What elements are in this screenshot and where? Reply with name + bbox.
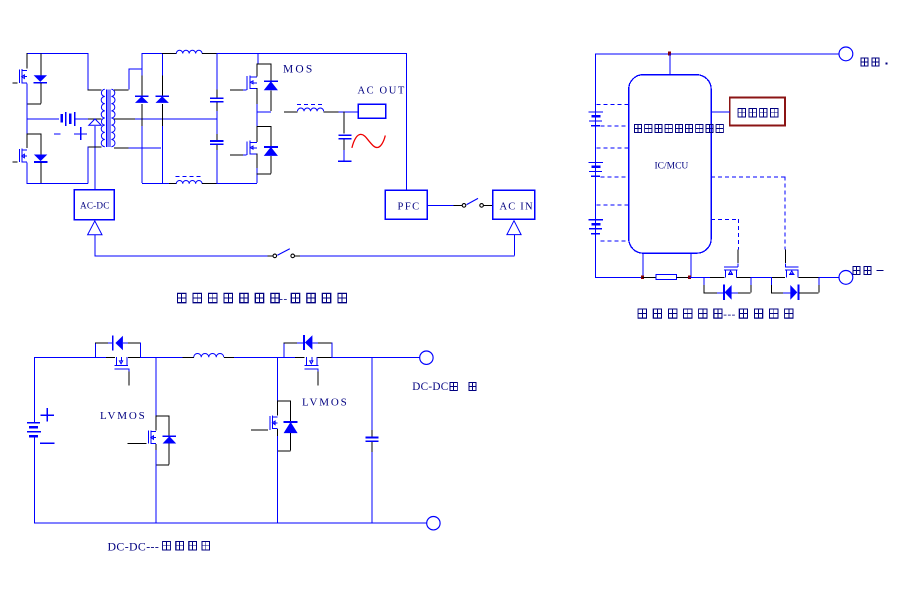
wire AC IN arrow drop: [513, 235, 515, 256]
svg-text:DC-DC---: DC-DC---: [108, 540, 160, 554]
wire Q6 to terminal: [798, 276, 818, 278]
svg-text:LVMOS: LVMOS: [100, 410, 147, 422]
battery B2 (LV battery): [33, 357, 35, 422]
wire IC sense legs: [642, 253, 644, 277]
diode D6 (Q4 freewheel): [256, 126, 271, 128]
wire BMS left string: [595, 53, 597, 277]
node K1 arrow from AC-DC into centre tap: [89, 119, 101, 125]
diode D4 (rectifier right): [162, 53, 164, 76]
IC U1 battery monitor MCU outline: [629, 75, 712, 254]
box communication interface: [730, 97, 785, 125]
wire rail to IC top: [669, 53, 671, 74]
wire PFC to switch: [427, 204, 454, 206]
waveform AC sine: [352, 134, 385, 148]
wire DC-DC bottom rail: [34, 522, 427, 524]
wire secondary bottom stub: [114, 147, 129, 149]
transistor Q2 (primary bridge lower MOSFET): [27, 133, 41, 135]
battery B1 (main DC source): [60, 114, 63, 123]
diode D2 (Q2 parallel diode): [40, 134, 42, 155]
label B1 plus: [74, 133, 87, 135]
wire battery row left: [26, 103, 28, 133]
wire L4 to phase node 2: [224, 357, 234, 359]
transistor Q1 (primary bridge upper MOSFET): [26, 53, 28, 69]
wire shunt to Q5: [689, 276, 710, 278]
wire secondary top elbow: [128, 68, 130, 89]
caption battery management unit topology: [638, 309, 646, 318]
label B2 plus: [40, 414, 54, 416]
inductor L3 (AC output choke): [298, 108, 324, 111]
capacitor C3 (AC output filter): [343, 111, 345, 133]
diode D12 (Q10 bypass): [283, 343, 285, 358]
svg-text:IC/MCU: IC/MCU: [655, 162, 689, 172]
terminal battery plus: [839, 47, 853, 61]
battery cell BT2: [589, 162, 603, 164]
capacitor C2 (lower bus cap): [216, 134, 218, 140]
wire top rail down to PFC: [405, 53, 407, 190]
diode D1 (Q1 parallel diode): [40, 54, 42, 76]
box AC OUT: [358, 104, 386, 118]
wire bypass return line: [95, 255, 268, 257]
wire AC-DC arrow drop: [94, 235, 96, 255]
wire DC-DC top rail: [34, 357, 95, 359]
svg-text:AC OUT: AC OUT: [358, 86, 406, 97]
resistor R1 current shunt: [642, 276, 656, 278]
line L2 core dash: [175, 175, 202, 177]
box PFC: [385, 190, 427, 219]
inductor L2 (bottom DC filter choke): [176, 180, 202, 183]
svg-text:PFC: PFC: [398, 202, 421, 213]
switch S1 (grid transfer): [454, 204, 462, 206]
transistor Q9 (sync rectifier MOSFET 2): [277, 400, 290, 402]
svg-text:LVMOS: LVMOS: [302, 397, 349, 409]
node arrow under AC IN: [507, 221, 521, 235]
wire rail under D9: [95, 357, 106, 359]
transistor Q3 (inverter MOSFET high side): [257, 53, 259, 64]
node arrow under AC-DC: [88, 221, 102, 235]
inductor L4 (DC-DC choke): [194, 353, 224, 357]
label U1 chinese: battery detect and control unit: [634, 125, 641, 133]
svg-text:MOS: MOS: [283, 64, 315, 76]
inductor L1 (top DC filter choke): [176, 50, 202, 53]
diode D9 (Q7 bypass): [95, 343, 97, 358]
wire BMS positive rail: [595, 53, 839, 55]
transistor Q10 (second high-side MOSFET): [305, 357, 307, 365]
wire Q8 to bottom rail: [155, 465, 157, 523]
svg-text:AC-DC: AC-DC: [80, 201, 110, 211]
svg-text:---: ---: [723, 308, 736, 320]
wire rail to L4: [183, 357, 194, 359]
label battery minus: [853, 266, 860, 274]
wire inverter mid node: [256, 111, 271, 113]
wire gate drive dashed to Q5: [711, 219, 738, 221]
wire inverter AC output: [284, 111, 297, 113]
diode D8 (Q6 bypass): [771, 277, 773, 285]
label B1 minus: [54, 133, 60, 135]
wire secondary bottom rail: [142, 183, 169, 185]
transistor Q6 (discharge protect MOSFET): [784, 249, 786, 263]
transformer T1: [87, 53, 89, 89]
wire primary top rail: [27, 53, 89, 55]
capacitor C4 (output cap): [371, 357, 373, 430]
wire bottom rail continues: [202, 183, 217, 185]
diode D7 (Q5 bypass): [703, 277, 705, 285]
wire rail Q7 to junction: [128, 357, 140, 359]
wire Q1 source node: [27, 103, 41, 105]
wire L3 to AC OUT box: [324, 111, 339, 113]
diode D11 (Q9 body diode): [290, 400, 292, 421]
wire Q9 to bottom rail: [277, 451, 279, 523]
transistor Q8 (sync rectifier MOSFET 1): [156, 415, 170, 417]
box AC-DC: [74, 190, 114, 220]
junction dot IC supply: [668, 51, 671, 55]
wire gate drive dashed to Q6: [711, 176, 785, 178]
line L3 core dash: [297, 103, 324, 105]
label battery plus: [861, 58, 868, 66]
wire BMS bottom rail left: [595, 276, 642, 278]
battery cell BT3: [589, 219, 603, 221]
switch S2 (bypass): [273, 254, 277, 258]
wire IC to comm box: [711, 111, 730, 113]
wire top rail continues: [202, 53, 217, 55]
terminal DC-DC output plus: [420, 351, 433, 364]
wire secondary top rail: [142, 53, 163, 55]
svg-text:AC IN: AC IN: [500, 202, 534, 213]
transistor Q4 (inverter MOSFET low side): [243, 154, 247, 156]
wire Q5 to Q6: [737, 276, 752, 278]
battery cell BT1: [589, 111, 603, 113]
svg-text:DC-DC: DC-DC: [412, 381, 448, 393]
caption main inverter storage unit topology: [177, 293, 186, 303]
diode D3 (rectifier left): [141, 53, 143, 75]
label comm interface chinese: [738, 109, 745, 117]
wire primary bottom rail: [27, 183, 88, 185]
transistor Q7 (buck high-side MOSFET): [115, 357, 117, 365]
wire phase node 2 drop: [277, 357, 279, 400]
box AC IN: [493, 190, 535, 219]
junction dot sense left: [641, 275, 644, 278]
diode D5 (Q3 freewheel): [256, 63, 271, 65]
wire cell sense taps (dashed): [597, 104, 629, 106]
junction dot sense right: [688, 275, 691, 278]
transistor Q5 (charge protect MOSFET): [737, 249, 739, 263]
svg-text:--: --: [279, 293, 287, 305]
wire rail under D12: [284, 357, 295, 359]
wire battery to transformer centre tap: [74, 118, 88, 120]
wire secondary centre tap: [114, 118, 135, 120]
wire rail Q10 to cap branch: [317, 357, 331, 359]
diode D10 (Q8 body diode): [168, 415, 170, 436]
terminal battery minus: [839, 271, 853, 285]
wire phase node 1 drop: [155, 357, 157, 415]
capacitor C1 (upper bus cap): [216, 53, 218, 90]
label B2 minus: [40, 442, 55, 444]
terminal DC-DC output minus: [427, 517, 440, 530]
wire arrow to AC-DC box: [94, 126, 96, 190]
